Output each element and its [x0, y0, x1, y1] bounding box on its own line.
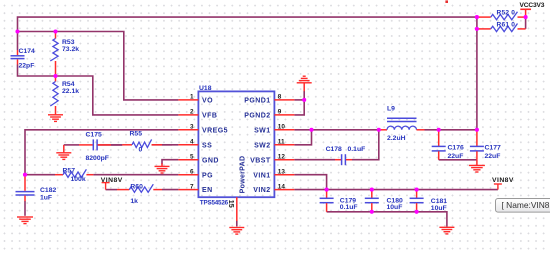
svg-text:PGND1: PGND1	[244, 98, 270, 105]
svg-text:PGND2: PGND2	[244, 113, 270, 120]
svg-text:22pF: 22pF	[19, 63, 35, 70]
wire VFB net: divider junction to pin 2	[56, 76, 179, 115]
ground below R54	[48, 114, 63, 116]
svg-text:C176: C176	[448, 145, 464, 152]
ground below C177	[476, 160, 478, 165]
svg-text:73.2k: 73.2k	[62, 46, 79, 53]
svg-text:8200pF: 8200pF	[86, 155, 109, 162]
svg-text:R57: R57	[63, 167, 76, 174]
svg-text:1k: 1k	[130, 198, 138, 205]
svg-text:1uF: 1uF	[40, 195, 52, 202]
svg-text:7: 7	[190, 183, 194, 190]
wire PGND1 pin 8 to ground junction	[294, 99, 304, 101]
svg-text:10: 10	[278, 124, 286, 131]
wire L9 output node	[425, 129, 477, 131]
svg-text:VIN8V: VIN8V	[101, 177, 123, 184]
capacitor C174 22pF	[17, 50, 19, 55]
svg-text:4: 4	[190, 139, 194, 146]
svg-text:U18: U18	[199, 85, 212, 92]
capacitor C180 10uF	[371, 190, 373, 198]
wire EN net: VIN8V port to R60	[106, 189, 117, 191]
resistor R57 100k	[55, 174, 63, 176]
svg-text:22uF: 22uF	[485, 153, 501, 160]
resistor R52 0	[477, 16, 491, 18]
svg-text:GND: GND	[202, 157, 219, 164]
svg-text:TPS54526: TPS54526	[200, 199, 229, 206]
wire VBST pin 12 to C178	[294, 159, 335, 161]
svg-text:R52 0: R52 0	[497, 10, 516, 17]
wire C176 C177 bottom rail	[439, 159, 477, 161]
resistor R54 22.1k	[55, 76, 57, 82]
wire C174 bottom to divider junction	[18, 65, 56, 77]
wire right vertical VCC3V3 rail to output node	[476, 17, 478, 130]
svg-text:0: 0	[139, 147, 143, 154]
wire PowerPAD to ground	[236, 221, 238, 227]
ground below C182	[17, 216, 33, 218]
wire input caps bottom rail to ground	[327, 212, 447, 227]
svg-text:VCC3V3: VCC3V3	[520, 2, 545, 9]
capacitor C175 8200pF	[79, 144, 93, 146]
ground below GND pin 5 wire	[161, 163, 163, 166]
U18 PowerPAD pin 15 stub	[236, 197, 238, 221]
capacitor C178 0.1uF	[335, 159, 341, 161]
svg-text:22uF: 22uF	[448, 153, 464, 160]
svg-text:1: 1	[190, 94, 194, 101]
svg-text:14: 14	[278, 183, 286, 190]
svg-text:12: 12	[278, 154, 286, 161]
wire VIN2 input rail	[294, 189, 498, 191]
svg-text:9: 9	[278, 109, 282, 116]
capacitor C181 10uF	[416, 190, 418, 198]
svg-text:L9: L9	[387, 105, 395, 112]
svg-text:13: 13	[278, 169, 286, 176]
svg-text:SW1: SW1	[254, 127, 271, 134]
svg-text:C175: C175	[86, 132, 102, 139]
wire C178 to SW node	[352, 130, 379, 160]
svg-text:R53: R53	[62, 39, 75, 46]
svg-text:SW2: SW2	[254, 142, 271, 149]
ground below PowerPAD	[229, 227, 244, 229]
wire PG net: VREG5 node to R57	[25, 174, 55, 176]
resistor R55 0	[122, 144, 132, 146]
svg-text:VBST: VBST	[250, 157, 271, 164]
svg-text:VO: VO	[202, 98, 213, 105]
svg-text:C182: C182	[40, 187, 56, 194]
inverted ground above pins 8/9	[303, 83, 305, 91]
capacitor C177 22uF	[476, 130, 478, 146]
svg-text:10uF: 10uF	[387, 204, 403, 211]
svg-text:PG: PG	[202, 172, 213, 179]
svg-text:2.2uH: 2.2uH	[387, 135, 406, 142]
wire SW1 pin 10 to L9	[294, 129, 378, 131]
wire PGND2 pin 9 up to junction	[294, 91, 304, 115]
wire SS net segment R55 to pin 4	[152, 144, 179, 146]
svg-text:VFB: VFB	[202, 113, 217, 120]
svg-text:R60: R60	[130, 183, 143, 190]
wire EN net: R60 to pin 7	[162, 189, 178, 191]
wire SW2 pin 11 join SW1	[294, 130, 311, 145]
wire GND pin 5 to ground	[162, 160, 178, 165]
resistor R61 0	[477, 28, 491, 30]
svg-text:2: 2	[190, 109, 194, 116]
svg-text:C177: C177	[485, 145, 501, 152]
wire C182 to ground	[24, 201, 26, 216]
svg-text:VIN2: VIN2	[253, 187, 270, 194]
wire SS net segment C175 to R55	[98, 144, 123, 146]
svg-text:VIN8V: VIN8V	[492, 177, 514, 184]
wire PG net: R57 to pin 6	[93, 174, 178, 176]
wire R61 right end up to R52 output	[525, 17, 527, 29]
wire SS net segment C175 to ground corner	[64, 144, 79, 146]
capacitor C182 1uF	[24, 175, 26, 191]
ground left of C175	[63, 145, 65, 153]
svg-text:C174: C174	[19, 48, 35, 55]
svg-text:11: 11	[278, 139, 285, 146]
svg-text:100k: 100k	[71, 176, 86, 183]
svg-text:0.1uF: 0.1uF	[340, 204, 358, 211]
power symbol VCC3V3	[525, 9, 527, 17]
svg-text:10uF: 10uF	[431, 205, 447, 212]
svg-text:[ Name:VIN8: [ Name:VIN8	[502, 200, 550, 210]
U18 left pin stubs 1-7	[178, 99, 198, 101]
power port VIN8V left	[102, 182, 110, 184]
capacitor C179 0.1uF	[326, 190, 328, 198]
svg-text:22.1k: 22.1k	[62, 88, 79, 95]
svg-text:C178: C178	[326, 146, 342, 153]
junction dots	[15, 29, 19, 33]
svg-text:6: 6	[190, 169, 194, 176]
svg-text:SS: SS	[202, 142, 212, 149]
svg-text:0.1uF: 0.1uF	[348, 146, 366, 153]
ground below input caps rail	[439, 226, 454, 228]
svg-text:EN: EN	[202, 187, 213, 194]
svg-text:PowerPAD: PowerPAD	[239, 156, 246, 194]
svg-text:VREG5: VREG5	[202, 127, 228, 134]
wire VREG5 net: pin 3 to C182 branch	[25, 130, 178, 175]
wire top output rail VCC3V3 net	[18, 17, 477, 50]
op-amp U18 TPS54526 IC body	[198, 91, 274, 197]
stray red marker top	[445, 0, 448, 3]
svg-text:5: 5	[190, 154, 194, 161]
power port VIN8V right	[497, 184, 499, 190]
svg-text:R61 0: R61 0	[497, 21, 516, 28]
svg-text:VIN1: VIN1	[253, 172, 270, 179]
svg-text:R54: R54	[62, 81, 75, 88]
tooltip box Name:VIN8V	[496, 199, 550, 213]
wire VO net: rail to pin 1	[18, 32, 179, 100]
svg-text:R55: R55	[130, 131, 143, 138]
wire VIN1 pin 13 jog down	[294, 175, 326, 190]
resistor R53 73.2k	[55, 32, 57, 39]
svg-text:15: 15	[227, 200, 236, 208]
svg-text:3: 3	[190, 124, 194, 131]
inductor L9 2.2uH	[379, 129, 387, 131]
U18 right pin stubs 8-14	[274, 99, 294, 101]
resistor R60 1k	[117, 189, 129, 191]
svg-text:8: 8	[278, 94, 282, 101]
capacitor C176 22uF	[438, 130, 440, 146]
